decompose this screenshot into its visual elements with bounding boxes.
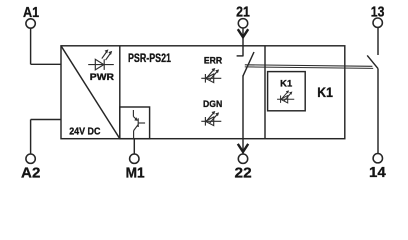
svg-text:24V DC: 24V DC	[69, 126, 100, 137]
svg-text:K1: K1	[317, 85, 333, 100]
svg-text:M1: M1	[126, 164, 145, 181]
svg-text:A1: A1	[23, 4, 39, 21]
svg-text:13: 13	[371, 3, 385, 20]
svg-text:K1: K1	[280, 78, 292, 88]
svg-text:22: 22	[235, 165, 252, 182]
svg-text:PWR: PWR	[90, 72, 115, 82]
svg-text:21: 21	[236, 4, 250, 21]
svg-text:PSR-PS21: PSR-PS21	[128, 51, 171, 65]
svg-text:DGN: DGN	[203, 99, 222, 110]
svg-text:ERR: ERR	[204, 55, 222, 66]
svg-text:14: 14	[369, 164, 386, 181]
svg-text:A2: A2	[21, 165, 40, 182]
